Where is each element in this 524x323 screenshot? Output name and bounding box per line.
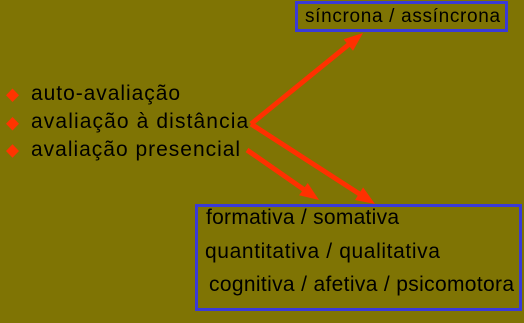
- bullet diamond 1: [6, 89, 19, 103]
- bullet diamond 2: [6, 117, 19, 131]
- bullet diamond 3: [6, 144, 19, 158]
- box: formativa/quantitativa/cognitiva (bottom): [195, 204, 522, 311]
- arrow: from distância to bottom box: [250, 122, 375, 204]
- label: quantitativa / qualitativa: [205, 241, 441, 262]
- label: formativa / somativa: [206, 207, 399, 228]
- arrow: to top box (síncrona): [249, 33, 363, 126]
- label: auto-avaliação: [31, 83, 181, 104]
- arrow: from presencial to bottom box: [246, 148, 319, 200]
- label: síncrona / assíncrona: [305, 7, 501, 26]
- label: cognitiva / afetiva / psicomotora: [209, 274, 514, 295]
- label: avaliação presencial: [31, 139, 241, 160]
- label: avaliação à distância: [31, 111, 249, 132]
- box: síncrona / assíncrona (top right): [295, 1, 508, 32]
